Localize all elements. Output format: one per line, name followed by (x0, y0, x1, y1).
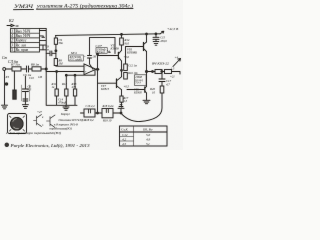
ground bus (46, 104, 77, 106)
connector K2 label (8, 18, 14, 23)
connector X1 pin numbers and row labels (11, 29, 31, 52)
wire VT8 base (127, 89, 145, 91)
ground (C7) (22, 105, 28, 109)
resistor R22 (162, 71, 165, 73)
rail end terminal (160, 31, 164, 34)
caption line under DIN (6, 131, 62, 135)
wire to op-amp inverting input (56, 65, 84, 68)
op-amp output wire (96, 68, 99, 70)
wire to bottom node (121, 102, 124, 107)
node B junction (97, 68, 99, 70)
junction dot (161, 71, 163, 73)
top loop wire (90, 37, 115, 53)
wire from connector row2 to bus (40, 36, 45, 37)
resistor R11 (55, 89, 58, 96)
resistor R7 (12, 67, 21, 71)
resistor R20 (160, 86, 164, 93)
wire VT6 emitter down (146, 52, 148, 87)
capacitor C7 branch wire (24, 76, 26, 89)
bottom output chain from op-amp column (81, 83, 98, 113)
frame around C7 area (22, 85, 30, 101)
ground (VT8) (143, 100, 150, 103)
transistor VT6 (143, 43, 145, 51)
pinout sketch B (47, 115, 56, 128)
wire (21, 68, 26, 70)
note lines (50, 118, 86, 131)
capacitor C17 (159, 79, 165, 86)
connector X1 table box (11, 29, 40, 53)
trimmer arrow (173, 59, 181, 67)
output line ВЧ (147, 71, 156, 73)
copyright (5, 143, 9, 147)
feedback wire (66, 69, 95, 75)
rail junction dots (121, 34, 123, 36)
series capacitor C8 wire from bus (46, 52, 49, 54)
pinout labels cursive (60, 112, 71, 116)
table header divider (120, 131, 168, 134)
branch C17 down from output line (161, 74, 163, 80)
wire down then curve to output chain (121, 93, 162, 122)
DIN connector face box (8, 114, 27, 134)
resistor R15 on x125 (125, 62, 127, 64)
wire to node A (41, 68, 46, 70)
wire (55, 44, 57, 58)
feedback dropper wires (46, 72, 75, 106)
wire (29, 68, 33, 70)
vertical divider chain x58 (55, 35, 57, 38)
output node junction (146, 71, 148, 73)
wire from connector row5 to bus (40, 49, 47, 51)
resistor R8 (32, 67, 41, 71)
terminal X3 dot (5, 83, 7, 85)
resistor R9a (54, 38, 57, 44)
pinout sketch A (34, 115, 42, 127)
vertical bus from connector down to input node (45, 28, 47, 71)
resistor R17 below VT7 (120, 96, 123, 102)
wire VT7 emitter down to node (121, 90, 123, 96)
capacitor C7 (22, 89, 28, 105)
op-amp U1 (К574УД1) (84, 64, 96, 75)
table column divider (133, 126, 135, 146)
title underline (14, 8, 134, 9)
junction dot chain (120, 112, 122, 114)
ground (bus) (63, 105, 69, 110)
wire VT6 base (126, 47, 144, 63)
capacitor C8 label (46, 46, 50, 52)
resistor R12 (65, 89, 68, 96)
title: УМЗЧ усилителя А-275 (радиотехника 304ч) (14, 2, 133, 9)
resistor R9b (54, 59, 57, 66)
wire R10 up (13, 71, 15, 90)
resistor R16 (124, 73, 128, 80)
resistor R13 (73, 89, 76, 96)
wire input (6, 68, 12, 70)
measurement table box (120, 126, 168, 146)
wires droppers to ground bus (57, 96, 75, 105)
transistor VT5 (117, 52, 119, 59)
wire to right edge (172, 72, 181, 75)
wire op-amp out to VT5 base (98, 54, 119, 70)
transistor VT7 (116, 79, 118, 88)
resistor R14 on VT5 collector (121, 34, 123, 38)
wire collector (121, 45, 123, 50)
resistor R21 (155, 70, 162, 74)
wire block2 to ground node (113, 112, 121, 114)
left ground rail (4, 70, 6, 105)
transistor VT8 (135, 75, 147, 86)
ground (left rail) (2, 105, 8, 109)
table inner row lines (120, 137, 134, 142)
ground (C15) (153, 42, 159, 46)
wire from connector row4 to bus (40, 45, 47, 50)
capacitor C15 on rail (155, 34, 157, 37)
op-amp label МС2 К574УД1 (69, 51, 82, 62)
capacitor C13 (polarized) (88, 56, 94, 70)
inverted ground above chain (118, 105, 124, 113)
C13 branch vertical with capacitor (89, 37, 91, 55)
node A junction dot (45, 68, 47, 70)
boxed value label 1500пФ (96, 48, 107, 54)
wire VT7 base (98, 69, 117, 83)
wire VT5 emitter down (121, 61, 123, 77)
wire rail to VT6 collector (146, 34, 148, 42)
parallel RC block R19 (102, 109, 113, 118)
label +41,5 В (167, 27, 178, 32)
wire from connector row3 to bus (40, 39, 47, 41)
wire between blocks (95, 112, 102, 114)
resistor R10 (dark) (13, 90, 16, 99)
capacitor C8 (50, 51, 52, 56)
wire op-amp + input (46, 71, 84, 73)
connector X1 row lines (11, 33, 40, 47)
capacitor C5 (27, 66, 29, 72)
table texts (121, 128, 153, 148)
annotation +0,6 (124, 56, 130, 89)
connector X1 left column divider (14, 29, 16, 53)
DIN connector face circle (10, 118, 23, 131)
wire C8 to divider (52, 52, 56, 54)
input jack label СЛ АМ (2, 56, 19, 64)
input terminal (3, 68, 6, 71)
parallel RC block C16/R18 (84, 109, 95, 117)
wire VT8 emitter to ground (146, 93, 148, 100)
DIN connector pins marks (10, 116, 25, 131)
top rail +41.5V (56, 34, 160, 36)
wire from connector row1 to bus (40, 28, 47, 30)
connector K2 arrow symbol (7, 24, 14, 26)
